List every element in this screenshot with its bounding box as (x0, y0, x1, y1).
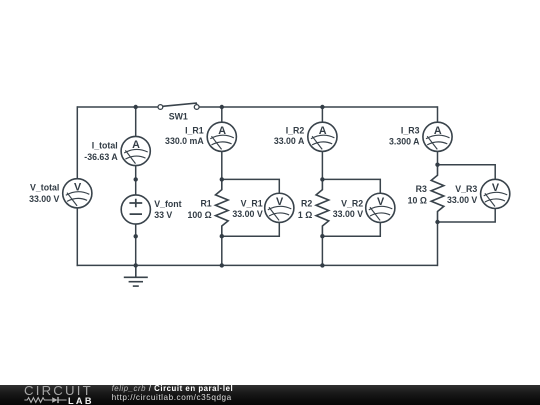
wire V_R3 loop top (438, 165, 496, 180)
wire left rail lower (76, 208, 78, 266)
wire V_R3 loop bottom (438, 209, 496, 223)
junction node below V_font (134, 234, 138, 238)
ammeter I_R3 (423, 122, 452, 151)
svg-text:V: V (276, 196, 284, 208)
footer line 2: url (112, 394, 232, 402)
wire R1 branch top (221, 107, 223, 122)
voltmeter V_R3 (481, 179, 510, 208)
ammeter I_R1 (207, 122, 236, 151)
svg-text:3.300 A: 3.300 A (389, 136, 420, 146)
svg-text:R1: R1 (200, 199, 211, 209)
footer bar (0, 385, 540, 405)
svg-text:V_font: V_font (154, 199, 181, 209)
ammeter I_total (121, 136, 150, 165)
junction node R2 bottom (320, 234, 324, 238)
wire R2 branch bottom (321, 236, 323, 265)
wire R1 branch bottom (221, 236, 223, 265)
svg-text:A: A (218, 125, 226, 137)
resistor R2 (316, 180, 329, 236)
wire V_R2 loop top (322, 179, 380, 193)
wire R2 branch top (321, 107, 323, 122)
junction node R3 top (435, 163, 439, 167)
wire R3 branch bottom (437, 222, 439, 266)
svg-text:I_R3: I_R3 (401, 126, 420, 136)
CircuitLab logo text LAB (68, 397, 94, 405)
junction node R1 bottom (220, 234, 224, 238)
voltmeter V_R1 (265, 193, 294, 222)
svg-text:V: V (377, 196, 385, 208)
svg-text:V_R1: V_R1 (241, 198, 263, 208)
svg-text:R2: R2 (301, 199, 312, 209)
svg-text:1 Ω: 1 Ω (298, 210, 312, 220)
svg-text:33.00 V: 33.00 V (232, 209, 262, 219)
svg-text:33.00 V: 33.00 V (29, 194, 59, 204)
CircuitLab logo resistor and diode glyph (24, 396, 68, 404)
svg-text:33.00 V: 33.00 V (333, 209, 363, 219)
voltmeter V_R2 (366, 193, 395, 222)
svg-text:R3: R3 (416, 184, 427, 194)
ground (124, 265, 148, 286)
wire source branch bottom (135, 224, 137, 265)
svg-text:V: V (492, 182, 500, 194)
svg-text:V_R2: V_R2 (341, 198, 363, 208)
wire R3 branch middle (437, 151, 439, 164)
svg-text:I_total: I_total (92, 141, 118, 151)
svg-text:SW1: SW1 (169, 112, 188, 122)
svg-text:10 Ω: 10 Ω (408, 196, 427, 206)
junction node ground at bottom rail (134, 263, 138, 267)
junction node R2 top (320, 177, 324, 181)
wire bottom rail (77, 264, 438, 266)
svg-text:I_R2: I_R2 (286, 126, 305, 136)
wire source branch middle (135, 166, 137, 195)
svg-text:V_R3: V_R3 (455, 184, 477, 194)
svg-text:33.00 A: 33.00 A (274, 136, 305, 146)
wire V_R1 loop top (222, 179, 279, 193)
junction node R1 top (220, 177, 224, 181)
svg-text:I_R1: I_R1 (185, 126, 204, 136)
svg-text:A: A (319, 125, 327, 137)
voltmeter V_total (63, 179, 92, 208)
junction node between I_total and V_font (134, 177, 138, 181)
wire R1 branch middle (221, 151, 223, 179)
wire R3 branch top (437, 106, 439, 122)
wire top rail right segment (199, 106, 438, 108)
svg-text:33 V: 33 V (154, 210, 172, 220)
svg-text:-36.63 A: -36.63 A (84, 152, 118, 162)
svg-text:33.00 V: 33.00 V (447, 195, 477, 205)
ammeter I_R2 (308, 122, 337, 151)
svg-text:100 Ω: 100 Ω (188, 210, 212, 220)
junction node R3 bottom (435, 220, 439, 224)
junction node R2 at bottom rail (320, 263, 324, 267)
junction node top rail at source branch (134, 105, 138, 109)
wire source branch top (135, 107, 137, 136)
wire V_R2 loop bottom (322, 222, 380, 236)
switch SW1 (158, 103, 199, 109)
svg-text:A: A (434, 125, 442, 137)
resistor R3 (431, 165, 444, 221)
wire top rail left segment (77, 106, 158, 108)
wire R2 branch middle (321, 151, 323, 179)
footer line 1: felip_crb / Circuit en paral·lel (112, 385, 234, 393)
junction node top rail at R1 branch (220, 105, 224, 109)
svg-text:A: A (132, 139, 140, 151)
CircuitLab logo text CIRCUIT (24, 386, 93, 396)
junction node R1 at bottom rail (220, 263, 224, 267)
svg-text:V: V (74, 181, 82, 193)
wire left rail upper (76, 106, 78, 178)
voltage source V_font (121, 195, 150, 224)
wire V_R1 loop bottom (222, 222, 279, 236)
svg-text:330.0 mA: 330.0 mA (165, 136, 204, 146)
svg-text:V_total: V_total (30, 183, 59, 193)
resistor R1 (216, 180, 229, 236)
junction node top rail at R2 branch (320, 105, 324, 109)
